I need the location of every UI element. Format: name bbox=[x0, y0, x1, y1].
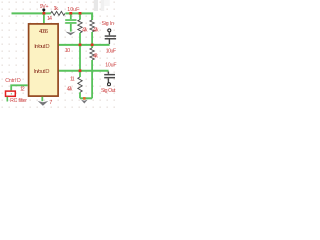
junction square ground GND3 bbox=[83, 97, 86, 100]
ghost shape (pale grey artifact top right) bbox=[94, 0, 110, 11]
svg-text:Sig In: Sig In bbox=[102, 21, 115, 27]
wire: 9V+ supply rail right segment with corner down to R3 bbox=[65, 13, 92, 20]
wire: stub to pin 14 of U1 bbox=[43, 14, 45, 23]
IC U1 4066 body bbox=[29, 24, 58, 96]
junction square node B / R5 top bbox=[79, 69, 82, 72]
svg-text:4066: 4066 bbox=[39, 29, 49, 35]
resistor R1 1k (horizontal on supply rail) bbox=[51, 6, 65, 16]
junction square resistor R2 top bbox=[79, 12, 82, 15]
svg-text:In/out D: In/out D bbox=[34, 44, 50, 50]
wire: vertical connector node A to node B bbox=[79, 46, 81, 70]
ground GND3 bbox=[81, 100, 88, 104]
junction square node A / R3 bottom bbox=[91, 44, 94, 47]
wire: bottom ground rail bbox=[80, 97, 92, 99]
svg-text:10: 10 bbox=[65, 48, 71, 54]
junction square capacitor C1 branch bbox=[69, 12, 72, 15]
svg-text:47k: 47k bbox=[93, 54, 98, 60]
resistor R3 47k (supply corner to node A) bbox=[90, 20, 99, 44]
svg-text:In/out D: In/out D bbox=[34, 69, 50, 75]
svg-text:1k: 1k bbox=[54, 6, 59, 12]
svg-text:10uF: 10uF bbox=[67, 7, 79, 13]
port Sig Out bbox=[101, 83, 116, 94]
svg-text:10uF: 10uF bbox=[106, 48, 116, 54]
capacitor C1 10uF (supply decoupling) bbox=[65, 7, 79, 32]
wire: pin 7 stub to ground bbox=[41, 97, 43, 101]
svg-text:47k: 47k bbox=[93, 27, 99, 33]
junction square node A / R2 bottom bbox=[79, 44, 82, 47]
resistor R2 47k (supply rail to node A) bbox=[78, 14, 88, 44]
resistor R4 47k (node A down, crosses node B wire, to ground rail) bbox=[90, 46, 99, 98]
svg-text:47k: 47k bbox=[82, 27, 88, 33]
port Sig In bbox=[102, 21, 115, 32]
svg-text:RC filter: RC filter bbox=[10, 98, 27, 104]
svg-text:Sig Out: Sig Out bbox=[101, 88, 116, 94]
wire: node A horizontal (pin 10 row) bbox=[59, 44, 110, 46]
ground GND1 bbox=[65, 32, 76, 36]
ground GND2 bbox=[38, 101, 49, 106]
module RC filter bbox=[6, 91, 28, 104]
junction dot on 9V+ net bbox=[42, 8, 45, 11]
junction square pin 14 bbox=[43, 12, 46, 15]
svg-text:7: 7 bbox=[49, 100, 52, 106]
wire: pin 12 (Cntrl D) elbow down to RC filter bbox=[11, 85, 28, 90]
svg-text:47k: 47k bbox=[67, 87, 73, 93]
capacitor C3 10uF (Sig Out coupling) bbox=[104, 62, 116, 82]
capacitor C2 10uF (Sig In coupling) bbox=[105, 32, 116, 55]
svg-text:10uF: 10uF bbox=[105, 62, 116, 68]
svg-text:Cntrl D: Cntrl D bbox=[5, 78, 21, 84]
wire: 9V+ supply rail left segment bbox=[12, 12, 51, 14]
svg-text:11: 11 bbox=[70, 77, 75, 83]
resistor R5 47k (node B to ground rail) bbox=[67, 72, 83, 98]
svg-text:14: 14 bbox=[47, 16, 52, 22]
svg-text:12: 12 bbox=[20, 87, 25, 93]
wire: node B horizontal (pin 11 row) bbox=[59, 70, 109, 72]
